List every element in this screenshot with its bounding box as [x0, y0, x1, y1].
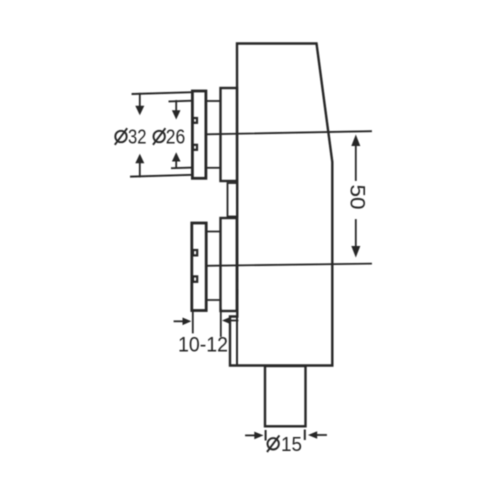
lower flange: [192, 223, 206, 311]
body left edge lower continuation: [236, 317, 238, 365]
dim ø15 left tick: [265, 431, 267, 440]
dim 50 down arrow: [351, 246, 360, 258]
lower pipe top line: [206, 231, 221, 233]
dim ø32 bottom line: [131, 175, 192, 177]
dim ø26 up arrow: [172, 152, 181, 168]
upper port centerline: [207, 131, 372, 134]
lower port neck: [221, 218, 237, 311]
dim ø32 up arrow: [135, 154, 144, 177]
dim ø32 top line: [133, 92, 193, 94]
svg-text:32: 32: [128, 126, 147, 149]
lower port centerline: [206, 264, 371, 266]
svg-text:10-12: 10-12: [178, 334, 228, 357]
upper pipe top line: [207, 100, 221, 102]
dim ø15 right arrow: [308, 431, 326, 439]
upper flange tab 1: [193, 118, 197, 123]
upper pipe bottom line: [207, 167, 221, 169]
label ø32: [115, 126, 147, 149]
dim 10-12 left arrow: [175, 318, 192, 326]
label ø26: [153, 126, 185, 149]
upper flange tab 2: [193, 145, 197, 150]
dim 50 up arrow: [351, 135, 360, 147]
dim ø32 down arrow: [135, 94, 144, 116]
dim ø15 right tick: [304, 431, 306, 440]
upper flange: [192, 91, 206, 178]
dim ø15 left arrow: [246, 432, 264, 440]
lower flange tab 1: [193, 250, 197, 255]
valve body outline: [230, 44, 332, 366]
dim 10-12 right extension line: [220, 309, 222, 336]
dim ø26 bottom line: [172, 167, 192, 170]
lower pipe bottom line: [206, 299, 221, 301]
dim 10-12 left extension line: [192, 312, 194, 333]
bottom stem pipe: [265, 366, 306, 426]
lower flange tab 2: [193, 276, 197, 281]
recessed section between ports: [228, 183, 238, 217]
dim 50 line lower segment: [355, 220, 357, 247]
dim 50 line upper segment: [355, 146, 357, 181]
dim ø26 top line: [170, 100, 193, 103]
svg-text:15: 15: [281, 433, 302, 456]
label ø15: [267, 433, 302, 456]
svg-text:50: 50: [346, 185, 369, 210]
dim 10-12 right arrow: [222, 317, 238, 325]
dim ø26 down arrow: [172, 101, 181, 120]
upper port neck: [221, 88, 238, 181]
svg-text:26: 26: [166, 126, 186, 149]
